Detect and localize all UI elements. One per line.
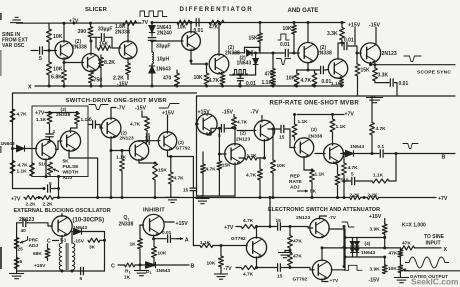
transformer T1 core <box>66 243 68 270</box>
resistor 390 <box>88 27 93 38</box>
wire <box>289 266 291 268</box>
wire <box>344 175 351 181</box>
value 4.7K <box>209 78 220 84</box>
junction <box>48 49 51 52</box>
wire <box>154 238 167 240</box>
wire Q15 collector <box>234 128 236 145</box>
wire <box>284 251 286 253</box>
wire 470 branch <box>272 53 274 69</box>
svg-text:INHIBIT: INHIBIT <box>143 207 165 213</box>
title AND GATE <box>288 8 319 14</box>
svg-text:PRF: PRF <box>29 238 39 244</box>
resistor 47K divider bottom <box>288 253 293 266</box>
junction <box>293 113 296 116</box>
value 15 <box>87 117 93 123</box>
value 3.9K <box>370 267 381 273</box>
node A output <box>185 237 189 243</box>
label (2) <box>228 45 234 51</box>
label -7V switch <box>224 266 233 272</box>
value 5 <box>39 56 42 62</box>
wire 470 branch <box>176 70 178 73</box>
value 510 <box>39 162 47 168</box>
wire <box>236 267 241 269</box>
resistor 4.7K switch top <box>241 225 256 229</box>
junction <box>218 21 221 24</box>
resistor 10K shunt <box>204 73 209 85</box>
svg-text:+7V: +7V <box>330 278 339 284</box>
junction <box>190 60 193 63</box>
value 4.7K <box>243 218 254 224</box>
ground top-left <box>10 17 23 22</box>
svg-text:4.7K: 4.7K <box>243 272 254 278</box>
wire <box>127 75 129 80</box>
transistor Q17 2N338 rep-rate <box>294 138 313 157</box>
wire 15K top <box>259 23 261 34</box>
value 4.7K <box>17 112 28 118</box>
svg-text:10K: 10K <box>207 261 216 267</box>
label SCOPE SYNC <box>417 70 451 76</box>
value 15 <box>145 132 151 138</box>
resistor 1.1K bias right <box>75 113 80 125</box>
transistor Q22 2N338 inhibit <box>143 214 164 235</box>
transistor Q23 2N123 oscillator <box>52 216 72 236</box>
svg-text:0.01: 0.01 <box>246 81 256 87</box>
wire mvbr timing <box>13 188 45 190</box>
wire <box>211 127 221 129</box>
label +7V bias <box>35 111 45 117</box>
wire diode branch <box>151 23 153 26</box>
value 10K <box>53 67 63 73</box>
svg-text:0.01: 0.01 <box>399 81 409 87</box>
svg-text:-15V: -15V <box>135 106 146 112</box>
wire Q4-Q5 link <box>191 61 207 64</box>
wire Q3 collector <box>127 23 129 42</box>
wire diode rail top <box>345 237 385 239</box>
wire <box>37 197 42 199</box>
wire <box>220 267 222 274</box>
label K=X 1000 <box>402 222 426 228</box>
wire <box>352 238 354 242</box>
transistor Q5 2N338 differentiator <box>209 54 229 74</box>
wire Q22 base <box>140 225 144 239</box>
wire emitter node <box>297 69 320 71</box>
resistor 10K upper <box>47 29 52 42</box>
capacitor 0.01 A node <box>237 78 244 80</box>
svg-text:10K: 10K <box>283 26 293 32</box>
wire osc top <box>17 222 22 224</box>
svg-text:2N240: 2N240 <box>157 30 172 36</box>
label Q1 <box>124 215 128 221</box>
ground 10K switch <box>214 274 228 279</box>
junction <box>57 196 60 199</box>
svg-text:ADJ: ADJ <box>290 185 300 191</box>
wire 10K top <box>220 246 222 257</box>
wire to Q23 base <box>27 223 52 226</box>
capacitor 2 speedup <box>45 134 53 137</box>
junction <box>154 196 157 199</box>
junction <box>293 52 296 55</box>
svg-text:-15V: -15V <box>117 81 128 87</box>
svg-text:1.1K: 1.1K <box>298 119 309 125</box>
junction <box>351 246 354 249</box>
label ADJ <box>290 185 300 191</box>
value 0.01 <box>246 81 256 87</box>
value 10K <box>53 34 63 40</box>
resistor 510 rep-rate <box>335 174 340 185</box>
svg-text:2N123: 2N123 <box>296 215 310 221</box>
svg-text:2N123: 2N123 <box>236 137 250 143</box>
transistor Q15 2N123 rep-rate <box>225 144 246 165</box>
svg-text:2: 2 <box>53 129 56 135</box>
wire -15V feed <box>142 111 147 118</box>
value 510 <box>341 178 349 184</box>
page edge mark left lower <box>0 247 2 269</box>
wire Q17 collector <box>294 137 296 140</box>
svg-text:25: 25 <box>18 247 24 253</box>
junction <box>295 85 298 88</box>
transistor Q16 2N123 rep-rate <box>254 120 274 140</box>
wire gated output <box>404 270 460 272</box>
svg-text:5K: 5K <box>63 158 70 164</box>
junction <box>259 196 262 199</box>
value 10K rep-rate <box>277 163 286 169</box>
value 4.7K <box>246 173 257 179</box>
diode 1N643 and-gate 1 <box>247 50 253 56</box>
negative pulse glyph and-gate <box>277 59 291 65</box>
svg-text:2.2K: 2.2K <box>350 192 361 198</box>
pot wiper arrow 10K <box>403 268 409 271</box>
title REP-RATE ONE-SHOT MVBR <box>270 100 360 106</box>
label 1N643 osc <box>73 225 87 231</box>
svg-text:1.1K: 1.1K <box>17 169 28 175</box>
junction <box>57 187 60 190</box>
value 10K <box>177 25 187 31</box>
wire B line <box>384 153 455 155</box>
wire 3.3K top <box>374 65 376 68</box>
value 10K <box>283 26 293 32</box>
capacitor 15 switch bottom <box>278 263 281 271</box>
wire Q16 base <box>237 130 256 132</box>
junction <box>341 42 344 45</box>
svg-text:47K: 47K <box>402 241 411 247</box>
switch-drive box left border <box>12 93 14 189</box>
resistor R1 1K <box>125 263 136 267</box>
svg-text:10K: 10K <box>388 266 397 272</box>
wire <box>356 253 358 258</box>
ground pot <box>394 278 409 283</box>
capacitor 33uuF feedback <box>101 33 104 41</box>
value 40 <box>21 228 27 234</box>
svg-text:1.1K: 1.1K <box>262 80 273 86</box>
svg-text:10K: 10K <box>53 34 63 40</box>
wire <box>146 131 148 141</box>
svg-text:SLICER: SLICER <box>85 7 108 13</box>
label +7V rail <box>11 197 21 203</box>
label 2N338 <box>56 112 70 118</box>
wire <box>206 85 208 87</box>
wire <box>294 115 296 125</box>
junction <box>154 162 157 165</box>
transistor Q14 2N123 rep-rate <box>197 114 217 134</box>
wire <box>356 180 372 182</box>
capacitor 15 coupling <box>93 120 96 128</box>
junction <box>344 256 347 259</box>
junction <box>100 85 103 88</box>
wire Q5 collector <box>218 23 220 56</box>
resistor 15K feedback <box>98 46 111 51</box>
wire osc bottom <box>17 270 105 272</box>
label +15V rep <box>198 110 211 116</box>
value 10K <box>194 75 204 81</box>
wire 10K branch <box>206 64 208 73</box>
svg-text:ADJ: ADJ <box>29 243 39 249</box>
junction <box>254 52 257 55</box>
wire secondary top <box>72 232 73 244</box>
title (10-30CPS) <box>73 218 105 224</box>
junction <box>234 127 237 130</box>
junction <box>395 152 398 155</box>
value 68K <box>33 251 42 257</box>
svg-text:10K: 10K <box>177 25 187 31</box>
junction <box>220 244 223 247</box>
label ADJ osc <box>29 243 39 249</box>
wire Q15 emitter <box>234 163 236 196</box>
resistor 4.7K switch bottom <box>241 266 256 270</box>
wire <box>399 273 401 278</box>
wire ground stem <box>16 271 18 274</box>
wire <box>352 246 354 248</box>
svg-text:4.7K: 4.7K <box>17 112 28 118</box>
label +7V rep <box>345 112 355 118</box>
junction <box>341 21 344 24</box>
diode 1N643 bridge 2 <box>350 248 355 253</box>
wire Q21 emitter stub <box>322 279 328 282</box>
resistor 1.1K Q7 emitter <box>340 79 344 86</box>
svg-text:1N643: 1N643 <box>156 67 171 73</box>
label +7V q21 <box>330 278 339 284</box>
svg-text:+7V: +7V <box>11 197 21 203</box>
svg-text:15K: 15K <box>249 35 259 41</box>
value 1K <box>130 242 137 248</box>
resistor 1.1K and-gate <box>271 79 276 87</box>
wire <box>58 177 60 189</box>
resistor 68K <box>45 249 50 259</box>
wire <box>90 37 92 41</box>
junction <box>221 85 224 88</box>
wire <box>49 124 51 134</box>
resistor 1.1K mvbr out <box>120 159 125 171</box>
capacitor 15 coupling mvbr <box>146 137 149 145</box>
resistor 2.2K right2 <box>367 196 378 200</box>
diode 1N643 bridge 4 <box>355 248 360 253</box>
value 2.2K <box>350 192 361 198</box>
transistor Q12 2N123 mvbr <box>129 141 148 160</box>
wire <box>153 258 155 266</box>
junction <box>90 85 93 88</box>
svg-text:2N338: 2N338 <box>317 50 332 56</box>
capacitor 15 switch top <box>278 222 281 230</box>
wire <box>48 137 50 142</box>
negative pulse glyph B <box>403 144 418 149</box>
wire +7V distribution <box>54 197 350 199</box>
label 1N643 <box>1 141 15 147</box>
svg-text:B: B <box>191 264 195 270</box>
svg-text:0.01: 0.01 <box>344 38 354 44</box>
wire <box>399 248 401 250</box>
wire 4.7K top <box>170 157 172 173</box>
svg-text:0.01: 0.01 <box>322 79 332 85</box>
value 8.2K <box>104 60 115 66</box>
svg-text:(2): (2) <box>311 127 317 133</box>
junction <box>90 40 93 43</box>
wire <box>139 249 141 265</box>
bias network inner box <box>32 106 88 177</box>
wire <box>49 175 51 177</box>
value 5 osc <box>20 259 23 265</box>
svg-text:(10-30CPS): (10-30CPS) <box>73 218 105 224</box>
svg-text:5: 5 <box>49 181 52 187</box>
svg-text:2.2K: 2.2K <box>43 202 54 208</box>
wire osc left branch <box>16 223 18 271</box>
wire <box>106 36 112 38</box>
label -15V <box>117 81 128 87</box>
svg-text:15K: 15K <box>361 68 371 74</box>
label REP <box>290 174 301 180</box>
junction <box>369 63 372 66</box>
wire Q13 emitter <box>167 150 169 157</box>
wire and-gate to cap <box>341 43 343 46</box>
svg-text:2N338: 2N338 <box>225 51 240 57</box>
junction <box>272 52 275 55</box>
wire rep-rate bottom <box>197 195 236 197</box>
resistor 15K mvbr <box>153 163 158 180</box>
wire <box>151 41 153 53</box>
wire <box>272 173 274 198</box>
title SWITCH-DRIVE ONE-SHOT MVBR <box>66 98 168 104</box>
node X <box>28 85 32 91</box>
label +15V inhibit <box>176 221 189 227</box>
resistor 2.2K left2 <box>42 196 54 200</box>
svg-text:6.8K: 6.8K <box>51 74 62 80</box>
label (2) <box>178 140 184 146</box>
resistor 4.7K on border upper <box>10 109 15 122</box>
value 2.2K <box>368 192 379 198</box>
wire <box>193 245 200 247</box>
label -7V q20 <box>329 215 337 221</box>
label GT792 <box>231 236 246 242</box>
junction <box>61 270 64 273</box>
svg-text:REP-RATE ONE-SHOT MVBR: REP-RATE ONE-SHOT MVBR <box>270 100 360 106</box>
svg-text:4.7K: 4.7K <box>18 163 29 169</box>
value 0.01 <box>322 79 332 85</box>
wire <box>96 36 100 38</box>
wire <box>311 182 313 198</box>
resistor 1.1K rep-rate left <box>292 124 297 137</box>
ground mvbr left <box>166 197 180 202</box>
capacitor 5 osc bottom <box>81 267 84 275</box>
svg-text:-15V: -15V <box>369 23 380 29</box>
wire <box>100 68 102 87</box>
svg-text:15: 15 <box>183 188 189 194</box>
capacitor 0.01 scope emitter <box>390 78 393 86</box>
label 2N338 <box>308 134 322 140</box>
junction <box>269 225 272 228</box>
svg-text:390: 390 <box>78 29 87 35</box>
wire <box>354 153 380 155</box>
capacitor 0.01 coupling <box>285 49 288 57</box>
wire <box>154 180 156 198</box>
wire Q12 collector <box>139 140 145 143</box>
svg-text:GT792: GT792 <box>293 277 308 283</box>
wire +7V rail slicer <box>17 22 141 24</box>
wire loop left <box>343 154 345 164</box>
wire +15V feed <box>354 28 356 45</box>
value 47K shunt <box>389 251 398 257</box>
svg-text:5: 5 <box>80 276 83 282</box>
wire Q14 base <box>197 123 199 125</box>
resistor 470 <box>175 73 180 86</box>
resistor 4.7K on border lower <box>10 161 15 174</box>
label +15V osc <box>34 263 46 269</box>
capacitor 15 rep-rate coupling <box>281 125 284 133</box>
svg-text:470: 470 <box>265 72 274 78</box>
junction <box>307 21 310 24</box>
svg-text:ELECTRONIC SWITCH AND ATTENUAT: ELECTRONIC SWITCH AND ATTENUATOR <box>268 207 380 213</box>
wire <box>384 234 386 248</box>
svg-text:2.2K: 2.2K <box>26 202 37 208</box>
junction <box>121 196 124 199</box>
label 1N643 <box>157 25 172 31</box>
wire Q4 emitter <box>190 49 192 61</box>
value 1.1K <box>298 119 309 125</box>
svg-text:-7V: -7V <box>251 110 260 116</box>
svg-text:1.1K: 1.1K <box>116 154 127 160</box>
svg-text:10K: 10K <box>194 75 204 81</box>
label 2N338 <box>317 50 332 56</box>
svg-text:(2): (2) <box>178 140 184 146</box>
resistor 47K series rail <box>209 20 224 25</box>
junction <box>195 123 198 126</box>
junction <box>343 196 346 199</box>
transistor Q8 2N123 scope sync <box>360 43 380 63</box>
label +7V <box>69 19 79 25</box>
transistor Q2 2N338 slicer <box>82 54 100 72</box>
label WIDTH <box>63 170 79 176</box>
svg-text:ADJ: ADJ <box>63 175 73 181</box>
label (2) <box>311 127 317 133</box>
capacitor 40 <box>23 219 26 227</box>
value 2.2K <box>26 202 37 208</box>
junction <box>45 175 48 178</box>
value 2.2K <box>113 75 124 81</box>
node C osc <box>47 239 51 245</box>
label 2N338 <box>72 44 87 50</box>
wire <box>356 246 358 248</box>
junction <box>343 152 346 155</box>
svg-text:-7V: -7V <box>140 20 149 26</box>
svg-text:DIFFERENTIATOR: DIFFERENTIATOR <box>180 6 254 13</box>
wire 15K top <box>356 53 358 64</box>
resistor 4.7K rep-rate out <box>258 169 263 180</box>
value 1K R1 <box>124 275 131 281</box>
capacitor 5 timing <box>48 184 51 192</box>
wire cross couple <box>56 141 62 150</box>
value 33uuF <box>156 43 170 49</box>
junction <box>340 85 343 88</box>
wire Q15 base <box>219 153 226 155</box>
junction <box>239 74 242 77</box>
label (4) <box>365 241 371 247</box>
